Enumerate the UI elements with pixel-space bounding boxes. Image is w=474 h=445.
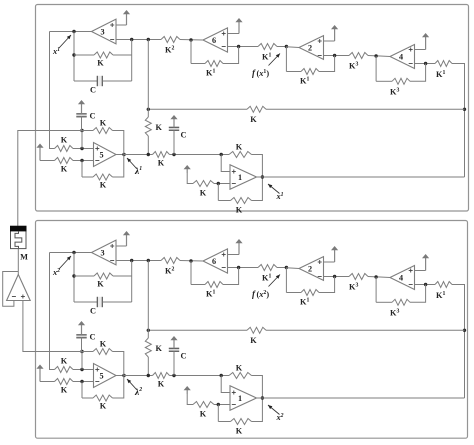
wire node A down to + node [81,131,83,149]
node A junction [80,129,83,132]
wire U2 output [286,46,299,49]
wire U5 output [116,375,124,377]
wire R2 to U6 output [180,39,203,42]
wire U6 + input [228,33,240,35]
resistor R3 (U4 feedback) [392,78,410,84]
junction U1 + branch [220,153,223,156]
wire to U2 feedback resistor [286,292,301,294]
resistor R1 (U4 out) [435,61,452,67]
op-amp U2 (block 2) [299,257,324,281]
op-amp U6 (block 2) [203,249,228,273]
wire U6 feedback right up [223,47,239,64]
junction U1 + branch [220,374,223,377]
wire feedback capacitor to right vertical [102,80,131,82]
resistor R1 (U6 feedback) [205,61,223,67]
wire U4 feedback right up [410,64,426,82]
junction R2 left [147,259,150,262]
svg-text:K: K [100,119,107,128]
op-amp U2 (block 1) [299,36,324,60]
svg-text:1: 1 [238,173,242,182]
svg-text:C: C [90,333,96,342]
wire U6 feedback down [190,261,192,285]
resistor R (U5 bottom feedback) [93,174,113,180]
svg-text:K: K [236,206,243,215]
junction feedback R row left [72,274,75,277]
wire U2 feedback right up [319,277,335,293]
svg-text:K: K [158,159,165,168]
junction U5 output [122,153,125,156]
op-amp U1 (block 1) [230,165,257,190]
capacitor C (at node A) [76,114,86,117]
wire U3 output to x node [50,252,92,254]
op-amp U3 (integrator, block 2) [92,240,117,265]
wire node A to memristor [18,131,82,227]
junction feedback R row left [72,53,75,56]
wire arrow to - resistor [40,381,55,383]
wire U5 - node down [81,161,83,178]
wire vertical resistor to y row [147,136,149,155]
capacitor C (at node A) [76,335,86,338]
wire to bottom feedback resistor [82,176,93,178]
wire long bus right [266,329,465,331]
wire to U1 bottom feedback resistor [218,421,230,423]
op-amp buffer (pointing up) [7,275,31,301]
resistor R (U1 bottom feedback) [231,198,252,204]
wire vertical resistor to y row [147,357,149,376]
resistor R (long bus) [247,327,266,333]
svg-text:(x2): (x2) [257,290,270,299]
junction long bus left [147,108,150,111]
wire buffer + input to block 2 node A [23,301,82,352]
svg-text:K: K [200,189,207,198]
svg-text:K: K [61,165,68,174]
svg-text:K: K [61,136,68,145]
svg-text:K: K [61,357,68,366]
junction U2 - node [333,275,336,278]
wire U2 + input [324,261,335,263]
resistor R (U3 feedback) [94,52,113,58]
svg-text:C: C [90,307,96,316]
resistor R1 (U2 feedback) [301,69,319,75]
resistor R1 (U4 out) [435,282,452,288]
wire U4 feedback down [375,56,377,81]
wire memristor to buffer output [17,249,19,275]
junction U3 - node [130,38,133,41]
wire to U2 feedback resistor [286,71,301,73]
power arrow above U1 - resistor [186,167,188,173]
power arrow above U6 [238,241,240,255]
svg-text:K: K [250,336,257,345]
resistor R (U1 - input) [193,402,214,408]
wire buffer feedback loop [3,272,19,307]
svg-text:5: 5 [100,150,104,159]
wire R1 to f node [277,46,286,48]
resistor R (U5 top feedback) [93,349,113,355]
wire R1 to f node [277,267,286,269]
wire vertical from U3 - node down [147,261,149,339]
junction U1 - node [217,403,220,406]
wire arrow to - resistor [40,160,55,162]
wire U4 + input [415,270,426,272]
junction U3 - node [130,259,133,262]
wire to bottom feedback resistor [82,397,93,399]
svg-text:K: K [236,364,243,373]
power arrow above y-row capacitor [173,338,175,348]
junction U1 output [261,396,264,399]
block 2 border frame [36,221,468,439]
svg-text:K: K [236,427,243,436]
wire to U1 bottom feedback resistor [218,200,230,202]
svg-text:C: C [181,352,187,361]
resistor R1 (U6 input) [258,265,277,271]
svg-text:4: 4 [399,52,403,61]
junction U6 output [189,259,192,262]
wire U3 + input [116,24,127,26]
resistor R (U1 top feedback) [229,373,252,379]
junction U4 - node [424,283,427,286]
arrow to U1 output node [268,184,280,194]
memristor M [11,226,27,248]
resistor R (U1 - input) [193,181,214,187]
wire U3 feedback right vertical [131,261,133,303]
wire top feedback down to output [113,352,124,376]
wire top feedback down to U1 output [252,155,263,178]
resistor R (vertical) [145,338,151,357]
wire y row left [124,375,153,377]
wire U3 - input [116,39,161,41]
wire bottom feedback up to output [252,177,263,201]
svg-text:2: 2 [308,43,312,52]
wire U2 - input [324,276,350,278]
power arrow left of U5 [39,146,41,161]
block 1 border frame [36,5,469,212]
power arrow above capacitor [81,323,83,335]
wire U1 - input [214,183,230,185]
power arrow above U4 [425,256,427,271]
wire U5 - node down [81,382,83,399]
arrow to U5 output [127,158,137,169]
wire R2 to U6 output [180,260,203,263]
wire node A to feedback resistor [82,130,93,132]
op-amp U4 (block 2) [390,266,415,290]
svg-text:1: 1 [238,394,242,403]
power arrow above U6 [238,20,240,34]
wire U1 + input up [221,155,230,172]
wire bottom feedback up to output [113,376,124,399]
capacitor C (U3 feedback) [97,297,102,307]
wire long bus right [266,108,465,110]
op-amp U5 (block 2) [94,364,117,388]
wire U1 + input up [221,376,230,393]
wire U3 feedback left vertical [73,253,75,303]
op-amp U3 (integrator, block 1) [92,19,117,44]
svg-text:K: K [156,344,163,353]
svg-text:K: K [97,59,104,68]
wire U6 feedback down [190,40,192,64]
wire to U6 feedback resistor [191,63,205,65]
svg-text:C: C [90,86,96,95]
op-amp U6 (block 1) [203,28,228,52]
wire U4 - input [415,63,436,65]
resistor R (U5 bottom feedback) [93,395,113,401]
junction capacitor node [172,153,175,156]
power arrow above U1 - resistor [186,388,188,394]
capacitor C (U3 feedback) [97,76,102,86]
power arrow above y-row capacitor [173,117,175,127]
wire y row middle [170,375,230,377]
junction y row / vertical resistor [147,153,150,156]
svg-text:2: 2 [308,264,312,273]
wire capacitor to node A [81,117,83,131]
svg-text:K: K [100,402,107,411]
wire U6 - input [228,46,259,48]
resistor R (U5 + input) [55,367,74,373]
junction U6 output [189,38,192,41]
wire U2 + input [324,40,335,42]
wire R1 right to vertical bus [452,64,465,178]
junction vertical bus / long wire [463,108,466,111]
wire bottom feedback up to output [252,398,263,422]
svg-text:4: 4 [399,273,403,282]
resistor R (U5 - input) [55,158,74,164]
junction U4 - node [424,62,427,65]
wire U6 - input [228,267,259,269]
junction U4 output [374,54,377,57]
svg-text:K: K [61,386,68,395]
wire node A to feedback resistor [82,351,93,353]
power arrow above U4 [425,35,427,50]
wire U3 - input [116,260,161,262]
svg-text:C: C [181,131,187,140]
power arrow above U2 [334,248,336,262]
svg-text:6: 6 [212,36,216,45]
wire to U4 feedback resistor [376,80,392,82]
wire feedback resistor to right vertical [113,54,132,56]
svg-text:K: K [100,181,107,190]
wire U3 output to x node [50,31,92,33]
wire U2 feedback down [285,268,287,293]
op-amp U4 (block 1) [390,45,415,69]
svg-text:K: K [250,115,257,124]
power arrow above U3 [126,233,128,246]
resistor R2 [161,258,180,264]
wire U2 - input [324,55,350,57]
svg-text:K: K [158,380,165,389]
node x1 [72,30,75,33]
wire U4 + input [415,49,426,51]
wire to U4 feedback resistor [376,301,392,303]
junction capacitor node [172,374,175,377]
junction U5 - node [80,380,83,383]
wire to feedback resistor [74,54,94,56]
node f(x1) [285,45,288,48]
junction U2 - node [333,54,336,57]
wire top feedback down to U1 output [252,376,263,399]
op-amp U1 (block 2) [230,386,257,411]
svg-text:C: C [90,112,96,121]
wire top feedback down to output [113,131,124,155]
junction U5 - node [80,159,83,162]
junction U1 - node [217,182,220,185]
wire U3 feedback left vertical [73,32,75,82]
power arrow above U2 [334,27,336,41]
capacitor C (y row) [169,348,179,351]
junction U4 output [374,275,377,278]
power arrow left of U5 [39,367,41,382]
wire U3 feedback right vertical [131,40,133,82]
op-amp U5 (block 1) [94,143,117,167]
wire y row middle [170,154,230,156]
wire x node down to U5 input resistor [50,32,55,149]
svg-text:K: K [100,340,107,349]
junction long bus left [147,329,150,332]
svg-text:K: K [97,280,104,289]
wire U1 output to right bus [257,397,465,399]
wire to feedback capacitor [74,80,97,82]
wire vertical from U3 - node down [147,40,149,118]
resistor R3 (U2 to U4) [349,274,368,280]
resistor R3 (U4 feedback) [392,299,410,305]
wire - resistor to U5 [73,160,94,162]
arrow to f node [269,54,281,66]
svg-text:M: M [20,253,28,262]
power arrow above U3 [126,12,128,25]
wire capacitor down to y row [173,351,175,375]
wire feedback capacitor to right vertical [102,301,131,303]
wire + resistor to U5 [73,148,94,150]
wire to feedback resistor [74,275,94,277]
svg-text:5: 5 [100,371,104,380]
wire long horizontal bus [148,329,247,331]
wire bottom feedback up to output [113,155,124,178]
resistor R (U5 + input) [55,146,74,152]
wire U4 feedback right up [410,285,426,303]
resistor R (U1 bottom feedback) [231,419,252,425]
wire y row left [124,154,153,156]
wire - resistor to power arrow [187,173,193,184]
wire U1 - node down [217,405,219,422]
junction R2 left [147,38,150,41]
resistor R (U1 top feedback) [229,152,252,158]
resistor R (vertical) [145,117,151,136]
resistor R (U5 top feedback) [93,128,113,134]
wire U6 feedback right up [223,268,239,285]
wire U4 - input [415,284,436,286]
resistor R (U3 feedback) [94,273,113,279]
capacitor C (y row) [169,127,179,130]
wire + resistor to U5 [73,369,94,371]
arrow to node x2 [59,256,71,269]
junction U5 + node [80,368,83,371]
wire R3 to U4 output [368,277,390,278]
wire - resistor to U5 [73,381,94,383]
wire U2 feedback right up [319,56,335,72]
power arrow above capacitor [81,102,83,114]
resistor R (long bus) [247,106,266,112]
junction y row / vertical resistor [147,374,150,377]
resistor R3 (U2 to U4) [349,53,368,59]
resistor R (U5 - input) [55,379,74,385]
wire U4 feedback down [375,277,377,302]
wire to feedback capacitor [74,301,97,303]
arrow to U5 output [127,379,137,390]
arrow to node x1 [59,35,71,48]
svg-text:(x1): (x1) [257,69,270,78]
wire U2 output [286,267,299,270]
wire to U6 feedback resistor [191,284,205,286]
wire U1 - node down [217,184,219,201]
wire - resistor to power arrow [187,394,193,405]
junction U6 - node [237,266,240,269]
junction vertical bus / long wire [463,329,466,332]
node f(x2) [285,266,288,269]
resistor R1 (U2 feedback) [301,290,319,296]
resistor R (y row) [153,152,170,158]
wire U1 output to right bus [257,176,465,178]
wire x node down to U5 input resistor [50,253,55,370]
resistor R1 (U6 input) [258,44,277,50]
svg-text:6: 6 [212,257,216,266]
node x2 [72,251,75,254]
wire feedback resistor to right vertical [113,275,132,277]
wire R3 to U4 output [368,56,390,57]
wire R1 right to vertical bus [452,285,465,399]
junction U5 + node [80,147,83,150]
svg-text:K: K [236,143,243,152]
arrow to U1 output node [268,405,280,415]
wire U5 output [116,154,124,156]
resistor R1 (U6 feedback) [205,282,223,288]
node A junction [80,350,83,353]
arrow to f node [269,275,281,287]
svg-text:3: 3 [101,248,105,257]
junction U1 output [261,175,264,178]
junction U5 output [122,374,125,377]
wire U6 + input [228,254,240,256]
wire long horizontal bus [148,108,247,110]
svg-text:K: K [156,123,163,132]
junction U6 - node [237,45,240,48]
wire node A down to + node [81,352,83,370]
svg-text:3: 3 [101,27,105,36]
wire U3 + input [116,245,127,247]
resistor R (y row) [153,373,170,379]
wire U2 feedback down [285,47,287,72]
resistor R2 [161,37,180,43]
wire U1 - input [214,404,230,406]
wire capacitor down to y row [173,130,175,154]
wire capacitor to node A [81,338,83,352]
svg-text:K: K [200,410,207,419]
